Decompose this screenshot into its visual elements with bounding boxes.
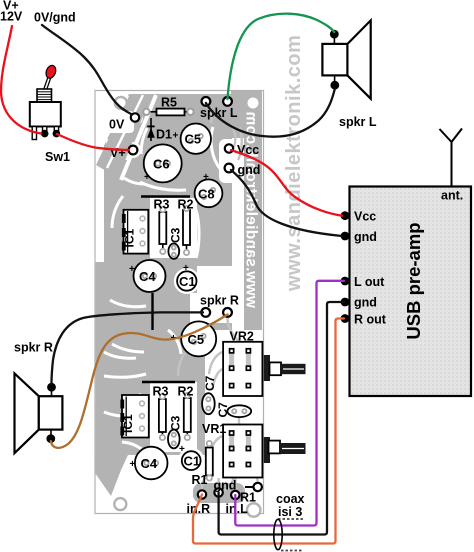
svg-text:C5: C5 — [185, 132, 202, 147]
svg-text:VR1: VR1 — [202, 422, 226, 436]
svg-text:Vcc: Vcc — [237, 143, 259, 157]
svg-text:Sw1: Sw1 — [45, 150, 70, 164]
svg-text:R5: R5 — [161, 96, 177, 110]
svg-text:C1: C1 — [184, 454, 201, 469]
svg-text:R3: R3 — [154, 198, 170, 212]
svg-text:www.sandielektronik.com: www.sandielektronik.com — [283, 35, 305, 292]
svg-text:C3: C3 — [169, 415, 183, 431]
svg-text:spkr R: spkr R — [14, 341, 53, 355]
svg-text:C7: C7 — [203, 375, 217, 391]
svg-text:D1: D1 — [156, 128, 172, 142]
svg-text:+: + — [144, 172, 150, 183]
svg-text:USB pre-amp: USB pre-amp — [403, 222, 424, 339]
svg-text:12V: 12V — [0, 10, 23, 24]
svg-text:R3: R3 — [153, 385, 169, 399]
svg-text:gnd: gnd — [238, 163, 261, 177]
svg-text:L out: L out — [354, 275, 385, 289]
svg-text:ant.: ant. — [441, 189, 463, 203]
svg-text:gnd: gnd — [354, 296, 377, 310]
svg-text:C3: C3 — [169, 227, 183, 243]
svg-text:spkr L: spkr L — [339, 115, 377, 129]
svg-text:IC1: IC1 — [121, 414, 135, 433]
svg-text:+: + — [183, 263, 189, 274]
svg-text:0V/gnd: 0V/gnd — [34, 11, 76, 25]
svg-text:+: + — [130, 459, 136, 470]
svg-text:+: + — [173, 131, 179, 142]
svg-text:R out: R out — [354, 313, 387, 327]
svg-text:C1: C1 — [179, 274, 196, 289]
svg-text:C4: C4 — [141, 456, 158, 471]
svg-text:gnd: gnd — [354, 230, 377, 244]
svg-text:R1: R1 — [192, 473, 208, 487]
svg-text:isi 3: isi 3 — [278, 505, 302, 519]
svg-text:+: + — [129, 264, 135, 275]
svg-text:C8: C8 — [198, 187, 215, 202]
svg-text:spkr R: spkr R — [200, 294, 239, 308]
svg-text:IC1: IC1 — [123, 229, 137, 248]
svg-text:R2: R2 — [178, 198, 194, 212]
svg-text:VR2: VR2 — [230, 330, 254, 344]
svg-text:C6: C6 — [153, 157, 170, 172]
svg-text:gnd: gnd — [214, 479, 237, 493]
svg-text:0V: 0V — [109, 118, 125, 132]
svg-text:C7: C7 — [216, 402, 230, 418]
svg-text:+: + — [203, 172, 209, 183]
svg-text:www.sandielektronik.com: www.sandielektronik.com — [243, 111, 260, 309]
svg-text:coax: coax — [276, 492, 305, 506]
svg-text:Vcc: Vcc — [354, 210, 376, 224]
svg-text:in.L: in.L — [226, 502, 249, 516]
svg-text:+: + — [179, 444, 185, 455]
svg-text:R2: R2 — [178, 385, 194, 399]
svg-text:V+: V+ — [110, 146, 126, 160]
svg-text:C4: C4 — [139, 269, 156, 284]
